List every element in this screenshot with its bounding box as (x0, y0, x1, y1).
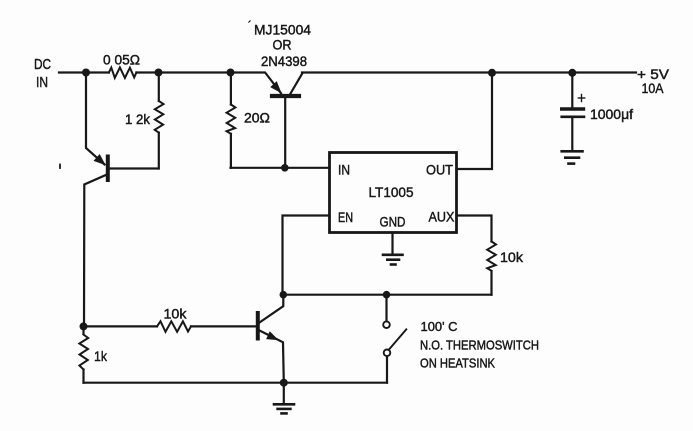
resistor R5 10k base (157, 321, 191, 332)
svg-text:GND: GND (380, 214, 406, 230)
svg-text:1k: 1k (94, 348, 108, 364)
wire 10k bottom to rail (490, 271, 492, 295)
wire AUX to 10k (457, 216, 492, 242)
ground GND pin of U1 (383, 233, 403, 265)
wire top rail left segment (59, 71, 109, 73)
svg-text:AUX: AUX (429, 209, 456, 225)
wire OUT to rail (457, 73, 493, 169)
svg-text:ON HEATSINK: ON HEATSINK (420, 356, 495, 371)
wire rail between R1 and Q3 (136, 71, 264, 73)
node thermoswitch top junction (383, 291, 391, 299)
svg-text:DC: DC (34, 56, 51, 73)
node EN rail junction (280, 291, 288, 299)
svg-text:1 2k: 1 2k (125, 111, 151, 127)
wire EN to left vertical (283, 216, 330, 295)
node capacitor rail junction (568, 69, 576, 77)
svg-text:10k: 10k (164, 306, 188, 322)
node emitter ground junction (280, 379, 288, 387)
switch S1 thermoswitch (383, 295, 406, 383)
resistor R1 0.05ohm (109, 67, 136, 78)
svg-text:1000μf: 1000μf (590, 106, 633, 122)
wire bottom rail (84, 382, 388, 384)
ground capacitor (562, 151, 583, 163)
wire IN line from 20ohm to regulator (231, 167, 330, 169)
svg-text:IN: IN (36, 74, 48, 91)
wire EN/AUX bottom rail (283, 294, 492, 296)
svg-text:´: ´ (248, 20, 252, 32)
node OUT rail junction (488, 69, 496, 77)
op-amp U1 LT1005 regulator box (330, 153, 457, 233)
svg-text:MJ15004: MJ15004 (254, 22, 311, 38)
node 20ohm top junction (227, 69, 235, 77)
artifact tick left margin (59, 165, 61, 169)
svg-text:10A: 10A (642, 80, 665, 96)
resistor R4 10k AUX pulldown (487, 242, 496, 271)
node DC input junction (82, 69, 90, 77)
node R1 right junction (155, 69, 163, 77)
resistor R6 1k (79, 326, 88, 382)
ground bottom rail (274, 383, 294, 414)
svg-text:10k: 10k (500, 249, 524, 265)
wire Q2 base line left (84, 325, 158, 327)
svg-text:OR: OR (273, 37, 292, 53)
wire top rail right segment (302, 71, 636, 73)
transistor Q2 NPN (191, 295, 284, 383)
capacitor C1 1000uf (562, 73, 585, 150)
svg-text:EN: EN (338, 209, 353, 225)
transistor Q1 left PNP (84, 73, 159, 327)
svg-text:LT1005: LT1005 (369, 184, 414, 200)
resistor R3 20ohm (227, 73, 236, 168)
node Q3 base junction (281, 164, 289, 172)
transistor Q3 MJ15004 pass transistor (266, 73, 303, 168)
resistor R2 1.2k (155, 73, 164, 169)
svg-text:0 05Ω: 0 05Ω (103, 52, 140, 68)
node left junction (80, 322, 88, 330)
svg-text:IN: IN (338, 162, 350, 178)
svg-text:OUT: OUT (426, 162, 453, 178)
svg-text:2N4398: 2N4398 (261, 53, 307, 69)
svg-text:N.O. THERMOSWITCH: N.O. THERMOSWITCH (420, 338, 539, 353)
svg-text:20Ω: 20Ω (244, 110, 270, 126)
svg-text:100' C: 100' C (421, 319, 458, 334)
